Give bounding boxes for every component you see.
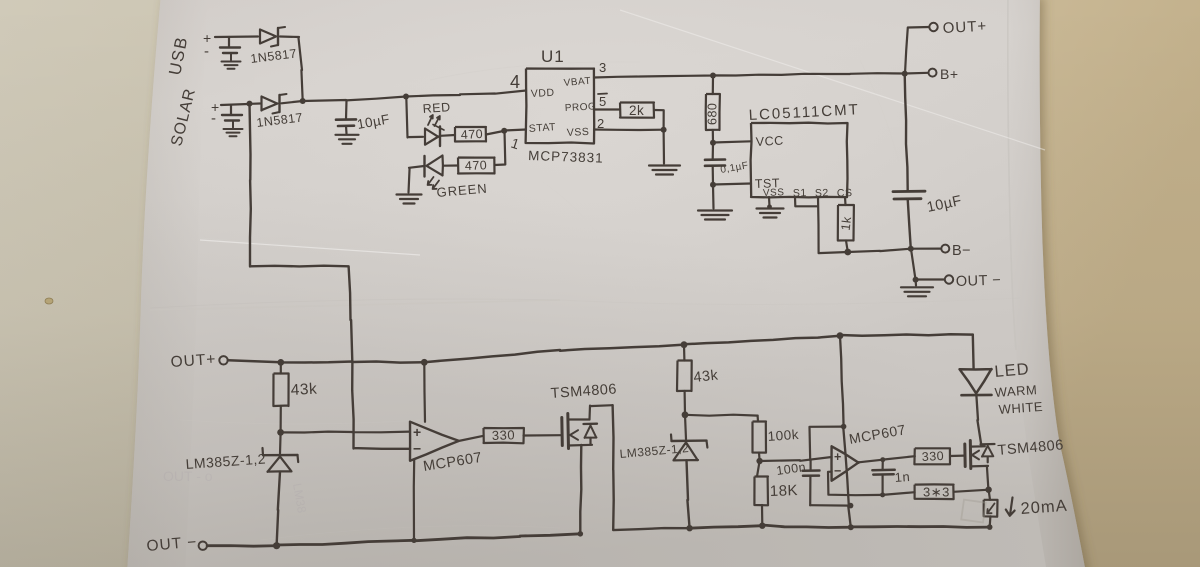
svg-text:330: 330 <box>492 427 516 443</box>
svg-text:43k: 43k <box>693 367 720 386</box>
LED green (D5) <box>427 156 443 176</box>
wire R2 to green led cathode <box>444 164 459 166</box>
svg-text:WHITE: WHITE <box>998 399 1043 417</box>
wire S2 down to B- rail <box>818 197 848 253</box>
svg-text:STAT: STAT <box>528 121 556 135</box>
junction vcc node <box>710 140 716 146</box>
ground below 2k <box>649 164 680 166</box>
green led emission arrows <box>428 177 434 185</box>
junction rail op-amp2 supply <box>837 332 844 339</box>
svg-text:3: 3 <box>599 60 607 75</box>
svg-text:WARM: WARM <box>994 382 1038 400</box>
wire red led to R1 <box>441 134 456 137</box>
junction ref node 1 <box>277 429 284 436</box>
wire VSS pin to ground <box>768 197 771 207</box>
sense resistor Rs <box>989 490 990 500</box>
ground below LC VSS <box>757 207 784 209</box>
wire to B- terminal <box>911 248 941 250</box>
wire VBAT pin3 to B+ rail <box>594 73 905 77</box>
svg-text:S2: S2 <box>815 187 829 199</box>
svg-text:470: 470 <box>465 158 488 173</box>
terminal OUT- bottom <box>199 542 207 550</box>
op-amp1 V+ wire <box>423 362 426 421</box>
wire junction to D2 <box>251 102 260 105</box>
junction op-amp supply / rising rail <box>421 359 428 366</box>
junction OUT- <box>913 277 919 283</box>
junction op-amp1 V- <box>411 538 416 543</box>
resistor R5 680 vertical <box>712 76 714 94</box>
wire USB+ to D1 <box>215 35 258 38</box>
junction Q2 source node <box>985 487 991 493</box>
svg-text:LED: LED <box>994 360 1031 381</box>
USB connector to ground <box>228 37 230 47</box>
resistor R6 1k vertical <box>838 205 854 241</box>
junction 680 top <box>710 73 716 79</box>
wire R4 to vss node <box>654 110 664 130</box>
junction 18K rail <box>759 523 765 529</box>
resistor R4 2k <box>620 103 654 118</box>
Q2 drain lead <box>971 445 985 448</box>
op-amp U4 MCP607 <box>832 446 859 481</box>
sheet of paper <box>127 0 1086 567</box>
wire 330 to Q2 gate <box>950 455 964 458</box>
wire to B- junction <box>848 249 911 252</box>
wire green led to ground <box>409 166 425 193</box>
wire D2 to C1 node <box>282 101 303 103</box>
junction vss/2k <box>661 127 667 133</box>
paper creases <box>150 12 1020 540</box>
svg-text:470: 470 <box>460 127 483 142</box>
ground below C2 <box>698 209 732 211</box>
wire CS to R6 <box>844 197 847 205</box>
wire to B+ terminal <box>905 72 928 75</box>
junction rail 43k-2 <box>681 341 688 348</box>
svg-text:+: + <box>834 450 842 464</box>
Q2 source lead <box>971 465 988 468</box>
ground below OUT- <box>901 286 933 288</box>
capacitor C3 10uF <box>893 190 925 193</box>
wire C3 to B- junction <box>908 199 911 249</box>
svg-text:VSS: VSS <box>763 187 785 199</box>
wire R6 to B- rail <box>846 241 848 253</box>
junction zener2 rail <box>686 525 692 531</box>
wire down to RED led <box>406 97 423 138</box>
faint bleed-through text <box>163 468 309 514</box>
resistor R11 18K <box>757 461 760 477</box>
capacitor C5 1n <box>881 460 883 470</box>
junction tst node <box>710 182 716 188</box>
LED warm white D8 <box>972 335 975 369</box>
op-amp2 - input feedback <box>828 472 883 496</box>
svg-text:MCP73831: MCP73831 <box>528 148 604 166</box>
wire S1 jog <box>795 197 818 206</box>
wire SOLAR+ to junction <box>221 104 248 105</box>
junction Q1 source on rail <box>578 531 584 537</box>
wire LED to Q2 drain <box>976 395 981 446</box>
junction B+ <box>902 71 908 77</box>
junction 1n top <box>880 457 885 462</box>
junction supply loop bottom <box>848 503 854 509</box>
wire R1 to stat node <box>486 131 504 135</box>
junction divider <box>758 453 761 461</box>
svg-text:20mA: 20mA <box>1020 497 1068 518</box>
diode D1 1N5817 <box>260 30 276 44</box>
ground of green led <box>397 193 422 195</box>
wire zener to OUT- rail <box>277 472 280 546</box>
Q1 source lead <box>569 444 593 447</box>
current arrow 20mA <box>1006 498 1015 516</box>
resistor R9 43k (2) <box>683 345 686 361</box>
wire OUT- junction to ground <box>914 280 917 286</box>
junction ref node 2 <box>682 411 689 418</box>
wire PROG pin5 to R4 <box>594 108 620 110</box>
junction OUT- rail <box>273 542 280 549</box>
zener D7 LM385Z-1.2 <box>685 415 686 439</box>
wire solar rail to U1 pin 4 <box>303 91 526 102</box>
svg-text:4: 4 <box>510 72 521 92</box>
svg-text:43k: 43k <box>290 381 317 399</box>
svg-text:1n: 1n <box>894 469 910 485</box>
svg-text:RED: RED <box>422 100 451 116</box>
svg-text:B+: B+ <box>940 66 959 82</box>
wire divider to op-amp2 + input <box>760 457 832 461</box>
wire R7 to ref node <box>280 406 282 432</box>
SOLAR connector to ground <box>230 105 232 115</box>
wire 680 to vcc node <box>712 130 714 143</box>
svg-text:−: − <box>834 464 842 478</box>
resistor R10 100k <box>756 416 759 422</box>
junction 1n bottom <box>880 492 885 497</box>
svg-text:5: 5 <box>599 94 607 109</box>
svg-text:VSS: VSS <box>567 126 590 139</box>
resistor R12 330 (2) <box>914 448 950 464</box>
wire tst node to LC TST <box>713 184 751 185</box>
svg-text:1k: 1k <box>839 215 855 231</box>
wire D1 cathode to solar node <box>280 37 303 101</box>
svg-text:OUT+: OUT+ <box>942 18 987 37</box>
Q1 body diode <box>584 423 598 426</box>
wire B- down to OUT- junction <box>911 249 916 280</box>
svg-text:PROG: PROG <box>565 101 597 114</box>
Q2 body diode <box>981 443 995 446</box>
svg-text:-: - <box>211 110 217 127</box>
svg-text:-: - <box>204 43 210 60</box>
rising rail to right section <box>424 334 973 362</box>
wire stat node down to R2 <box>495 131 506 165</box>
wire 3k3 to source node <box>954 490 989 492</box>
junction supply rail bottom <box>848 524 854 530</box>
op-amp2 supply loop <box>810 427 842 461</box>
capacitor C1 10uF <box>345 100 348 119</box>
svg-text:VDD: VDD <box>531 87 555 100</box>
OUT- bottom rail <box>207 534 580 546</box>
U2 body LC05111CMT <box>751 123 848 198</box>
terminal OUT+ top <box>929 23 937 31</box>
terminal B+ <box>929 69 937 77</box>
terminal B- <box>941 245 949 253</box>
bottom rail right section <box>690 525 990 528</box>
wire OUT+ to B+ junction <box>905 27 929 74</box>
op-amp1 V- wire <box>413 460 416 540</box>
svg-text:U1: U1 <box>541 47 565 66</box>
resistor R8 330 <box>484 428 524 443</box>
wire VSS pin2 to node <box>594 128 664 131</box>
wire R8 to Q1 gate <box>524 434 561 436</box>
wire tst node to ground <box>712 185 715 209</box>
junction Rs rail <box>987 524 993 530</box>
junction on solar rail at USB drop <box>300 98 306 104</box>
svg-text:OUT −: OUT − <box>956 272 1002 290</box>
svg-text:+: + <box>413 424 422 440</box>
junction RED branch <box>403 94 409 100</box>
RED led emission arrows <box>428 115 433 125</box>
wire ref node to op-amp + input <box>281 431 410 434</box>
wire long feedback drop from solar node <box>250 104 411 449</box>
wire stat node to U1 STAT pin <box>504 130 526 131</box>
svg-text:680: 680 <box>706 103 720 125</box>
svg-text:B−: B− <box>952 243 971 259</box>
op-amp U3 MCP607 <box>410 422 459 461</box>
svg-text:VCC: VCC <box>755 134 784 149</box>
capacitor C2 0.1uF <box>712 143 714 159</box>
junction S2/CS/B- <box>844 249 851 256</box>
faint pencil box <box>961 500 986 523</box>
svg-text:−: − <box>413 441 422 457</box>
svg-text:3∗3: 3∗3 <box>923 485 950 500</box>
resistor R2 470 <box>458 158 495 174</box>
resistor R1 470 <box>455 127 486 142</box>
feedback to 3k3 <box>883 492 915 495</box>
svg-text:330: 330 <box>921 449 944 464</box>
capacitor C4 100n <box>809 460 811 470</box>
wire op-amp1 output to R8 <box>459 436 484 441</box>
wire vcc node to LC chip VCC <box>713 141 751 142</box>
ground of C1 <box>336 134 359 136</box>
terminal OUT- <box>945 275 953 283</box>
Q1 drain loop down <box>613 405 690 530</box>
LED red (D4) <box>425 129 439 145</box>
wire Rs to rail <box>989 516 992 527</box>
svg-text:OUT+: OUT+ <box>170 351 217 371</box>
svg-text:18K: 18K <box>770 482 799 500</box>
wire 18K to rail <box>761 505 763 526</box>
op-amp2 output <box>859 456 915 462</box>
junction B- <box>908 246 914 252</box>
wire to OUT- terminal <box>916 278 945 280</box>
U1 body MCP73831 <box>526 69 595 144</box>
junction supply top <box>841 424 847 430</box>
svg-text:2k: 2k <box>629 103 644 118</box>
wire down to ground <box>662 130 665 164</box>
wire ref2 to 100k <box>685 415 758 416</box>
zener D6 LM385Z-1.2 <box>279 433 282 454</box>
junction stat node <box>501 128 507 134</box>
wire B+ down to C3 <box>905 74 908 191</box>
wire zener2 to bottom rail <box>687 460 690 528</box>
op-amp2 supply vertical <box>840 336 851 527</box>
junction solar feed to lower circuit <box>247 101 253 107</box>
diode D2 1N5817 <box>261 97 277 111</box>
resistor R7 43k <box>280 362 282 373</box>
junction 43k-1 top <box>277 359 284 366</box>
wire OUT+ rail <box>228 360 424 362</box>
svg-text:100k: 100k <box>767 427 799 444</box>
resistor R13 3k3 <box>915 484 954 499</box>
Q1 drain lead <box>569 418 590 420</box>
